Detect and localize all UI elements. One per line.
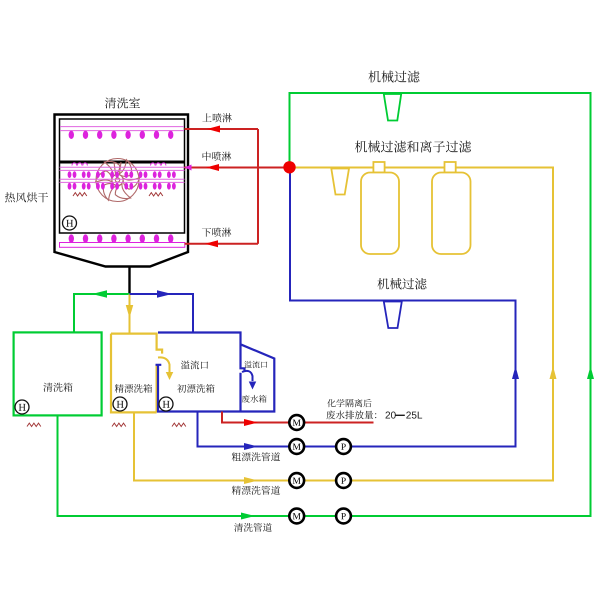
label 清洗箱 bbox=[43, 383, 72, 392]
heater zigzag under fine rinse tank bbox=[112, 423, 126, 426]
lower spray line 下喷淋 bbox=[185, 243, 259, 245]
label 废水排放量 bbox=[326, 410, 376, 419]
label 机械过滤和离子过滤 bbox=[355, 141, 471, 153]
label 中喷淋 bbox=[203, 152, 232, 161]
label 下喷淋 bbox=[202, 228, 231, 237]
blue supply branch to initial rinse tank bbox=[130, 294, 194, 333]
bottom spray nozzles bbox=[69, 234, 174, 242]
ion filter tank 1 cap bbox=[373, 162, 384, 173]
label 粗漂洗管道 bbox=[232, 452, 280, 461]
chamber drain pipe bbox=[128, 267, 130, 295]
waste discharge pipe bbox=[222, 412, 374, 423]
initial rinse tank 初漂洗箱 and waste tank 废水箱 outline bbox=[156, 333, 275, 412]
heater symbol H in initial rinse tank bbox=[159, 397, 173, 411]
magenta coil marks bbox=[72, 163, 87, 166]
upper spray line 上喷淋 bbox=[185, 128, 259, 130]
label 化学隔离后 bbox=[327, 399, 371, 407]
middle spray pipe lower bbox=[60, 178, 185, 180]
heater symbol H in chamber bbox=[63, 216, 77, 230]
mechanical filter (yellow) bbox=[331, 169, 349, 195]
mechanical filter (green) bbox=[384, 94, 401, 121]
motor valve M waste line bbox=[289, 415, 304, 430]
motor M fine rinse bbox=[289, 473, 304, 488]
middle spray pipe upper bbox=[60, 166, 185, 168]
ion filter tank 1 bbox=[361, 173, 399, 255]
label 溢流口 waste bbox=[244, 361, 267, 368]
motor M clean line bbox=[289, 509, 304, 524]
label 清洗室 cleaning chamber bbox=[105, 97, 140, 108]
top spray nozzles bbox=[69, 131, 174, 139]
label 机械过滤 blue bbox=[377, 278, 426, 290]
chamber divider bbox=[60, 161, 185, 164]
pump P fine rinse bbox=[336, 473, 351, 488]
yellow loop pipe 精漂洗管道 bbox=[134, 168, 553, 481]
label 精漂洗箱 bbox=[115, 384, 152, 393]
overflow arrow blue into waste tank bbox=[242, 371, 253, 381]
ion filter tank 2 cap bbox=[445, 162, 456, 173]
cleaning chamber inner wall bbox=[60, 119, 185, 233]
wash tank 清洗箱 bbox=[14, 332, 102, 415]
heater zigzag under initial rinse tank bbox=[172, 423, 186, 426]
label 机械过滤 top bbox=[368, 71, 419, 83]
label 清洗管道 bbox=[234, 523, 272, 532]
label 废水箱 bbox=[242, 395, 267, 403]
label 精漂洗管道 bbox=[232, 486, 280, 495]
bottom spray pipe bbox=[60, 243, 185, 248]
label 热风烘干 hot air drying bbox=[5, 192, 48, 202]
ion filter tank 2 bbox=[432, 173, 471, 255]
red spray header vertical bbox=[257, 129, 259, 244]
heater zigzag left bbox=[73, 193, 87, 196]
mechanical filter (blue) bbox=[384, 302, 402, 329]
heater symbol H in fine rinse tank bbox=[113, 397, 127, 411]
mixing node (red dot) bbox=[283, 161, 295, 173]
heater zigzag right bbox=[149, 193, 163, 196]
yellow supply branch to fine rinse tank bbox=[129, 294, 131, 334]
pump P clean line bbox=[336, 509, 351, 524]
label 上喷淋 bbox=[202, 113, 231, 122]
fan wheel bbox=[93, 158, 142, 203]
label 溢流口 inner bbox=[181, 360, 208, 369]
cleaning chamber outer shell with hopper bottom bbox=[55, 115, 189, 267]
green loop pipe 清洗管道 bbox=[58, 93, 591, 516]
top spray pipe bbox=[60, 126, 184, 128]
blue loop pipe 粗漂洗管道 bbox=[198, 172, 516, 447]
middle nozzle pairs bbox=[68, 171, 176, 189]
fine rinse tank 精漂洗箱 bbox=[111, 334, 162, 413]
label 初漂洗箱 bbox=[177, 384, 214, 393]
motor M coarse rinse bbox=[289, 439, 304, 454]
heater symbol H in wash tank bbox=[15, 400, 29, 414]
green supply branch to wash tank bbox=[74, 294, 130, 332]
pump P coarse rinse bbox=[336, 439, 351, 454]
overflow arrow yellow bbox=[158, 357, 170, 372]
heater zigzag under wash tank bbox=[27, 423, 41, 426]
middle spray line 中喷淋 bbox=[185, 167, 290, 169]
